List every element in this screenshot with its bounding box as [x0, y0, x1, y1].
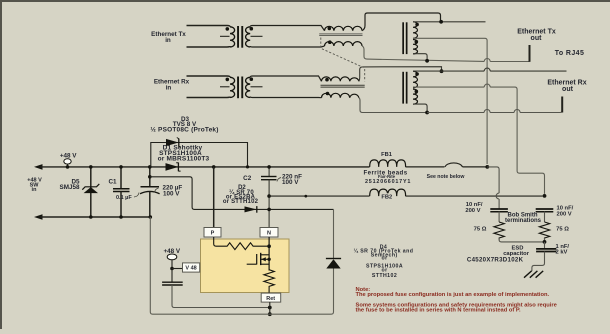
svg-text:or STTH102: or STTH102 — [223, 199, 259, 205]
pin box V48 — [172, 263, 200, 272]
fuse on FB1 line — [445, 163, 463, 167]
note text — [356, 287, 557, 314]
wire Rx in bottom — [187, 97, 231, 98]
junction Rx top tap — [440, 69, 444, 73]
label ferrite beads — [363, 170, 411, 186]
junction FB2 / right chain — [543, 194, 547, 198]
autotransformer T4 Rx core — [402, 72, 407, 104]
hop wire y112 over v517 — [514, 110, 520, 113]
choke L1 core — [319, 34, 362, 36]
svg-text:C4520X7R3D102K: C4520X7R3D102K — [467, 256, 524, 263]
svg-text:out: out — [562, 86, 574, 93]
svg-text:2512066017Y1: 2512066017Y1 — [365, 179, 411, 185]
wire Tx secondary top to choke — [250, 26, 324, 31]
ground ESD — [524, 271, 543, 278]
junction Rx bottom tap — [425, 111, 429, 115]
svg-text:in: in — [32, 187, 38, 193]
wire Ethernet Rx out line — [427, 97, 562, 113]
wire P feed vertical — [213, 167, 215, 228]
svg-text:Ethernet Rx: Ethernet Rx — [154, 79, 190, 86]
label Ethernet Tx in — [151, 31, 186, 44]
dashed coupling path — [321, 38, 365, 82]
junction Tx bottom tap — [425, 59, 429, 63]
wire Rx top tap — [413, 70, 567, 72]
wire Tx in top — [187, 26, 231, 27]
capacitor Bob Smith left 10nF — [465, 202, 508, 222]
resistor internal lower — [264, 270, 274, 293]
wire bottom rail — [41, 215, 153, 219]
svg-text:in: in — [165, 37, 171, 44]
transformer T1 Tx-in secondary winding — [246, 27, 263, 47]
svg-text:0.1 µF: 0.1 µF — [116, 195, 132, 201]
label Ethernet Rx out — [547, 80, 586, 93]
arrow bottom rail left — [34, 214, 43, 220]
svg-text:To RJ45: To RJ45 — [555, 50, 585, 57]
svg-text:P: P — [211, 231, 215, 237]
svg-text:100 V: 100 V — [282, 179, 299, 186]
wire Tx bottom tap — [413, 54, 427, 61]
junction FB2 small dot — [304, 195, 307, 198]
hop wire y70 over v487 — [484, 68, 490, 71]
junction FB1 / v487 — [485, 165, 489, 169]
label D4 — [354, 244, 414, 279]
hop wire y61 over v487 — [484, 59, 490, 62]
transformer T2 Rx-in secondary winding — [246, 77, 263, 97]
wire choke L1 w1 to top jog — [362, 13, 440, 31]
wire top rail / FB1 net — [41, 166, 486, 168]
svg-text:terminations: terminations — [505, 218, 542, 224]
svg-text:N: N — [267, 231, 271, 237]
svg-text:200 V: 200 V — [557, 211, 572, 217]
svg-text:100 V: 100 V — [163, 190, 180, 197]
resistor internal sense — [214, 237, 268, 250]
svg-text:C2: C2 — [243, 175, 252, 182]
svg-text:or MBRS1100T3: or MBRS1100T3 — [158, 155, 210, 162]
ferrite bead FB2 — [370, 189, 406, 200]
diode D2 — [150, 177, 334, 213]
svg-text:The proposed fuse configuratio: The proposed fuse configuration is just … — [356, 292, 550, 298]
autotransformer T4 Rx winding — [413, 71, 419, 104]
wire Rx middle tap to vertical — [413, 84, 545, 194]
wire Tx top tap — [413, 21, 486, 23]
svg-text:in: in — [166, 84, 172, 91]
choke L2 core — [321, 85, 365, 87]
resistor 75 ohm right — [539, 222, 569, 240]
wire to RJ45 stub — [529, 45, 531, 62]
transformer T2 Rx-in primary winding — [220, 77, 235, 97]
junction C2 FB2 — [267, 194, 271, 198]
wire choke L1 w2 down-right — [362, 46, 529, 62]
wire Rx in top — [187, 76, 231, 77]
transformer T1 core — [237, 26, 243, 48]
choke L1 Tx winding 1 — [325, 26, 363, 30]
svg-text:200 V: 200 V — [465, 208, 480, 214]
svg-text:C1: C1 — [108, 179, 117, 186]
junction Ret lower — [268, 312, 272, 316]
autotransformer T3 Tx winding — [413, 22, 419, 54]
junction D1 out — [212, 165, 216, 169]
svg-text:75 Ω: 75 Ω — [474, 226, 487, 232]
chip block PoE controller — [201, 239, 290, 293]
pin box Ret — [261, 293, 281, 302]
wire Tx in bottom — [187, 46, 231, 47]
wire FB1 to left BobSmith cap — [487, 167, 499, 209]
diode D3 TVS bypass loop — [150, 116, 249, 169]
wire Tx secondary bottom to choke — [250, 46, 324, 47]
wire Ret vertical — [269, 302, 271, 314]
capacitor C1 0.1uF — [108, 165, 139, 217]
svg-text:the fuse to be installed in se: the fuse to be installed in series with … — [356, 307, 521, 313]
label Bob Smith terminations — [505, 212, 542, 224]
capacitor Bob Smith right 10nF — [536, 206, 574, 223]
svg-text:FB2: FB2 — [381, 194, 392, 200]
transistor Q1 MOSFET — [247, 237, 271, 271]
hop wire y112 over v487 — [484, 110, 490, 113]
wire choke L2 w2 down-right — [359, 98, 427, 113]
svg-text:75 Ω: 75 Ω — [556, 226, 569, 232]
svg-text:STTH102: STTH102 — [372, 273, 397, 279]
junction resistor to N — [267, 244, 271, 248]
svg-text:V 48: V 48 — [185, 266, 196, 272]
choke L2 Rx winding 2 — [322, 92, 359, 98]
terminal +48V top — [60, 153, 77, 169]
junction Ret upper — [268, 306, 272, 310]
wire Rx secondary top to choke — [250, 76, 321, 81]
label Ethernet Tx out — [517, 29, 556, 42]
svg-text:SMJ58: SMJ58 — [60, 184, 80, 191]
transformer T1 Tx-in primary winding — [220, 27, 235, 47]
svg-text:or: or — [381, 256, 387, 262]
diode D5 zener SMJ58 — [60, 165, 100, 217]
label see note below — [427, 174, 466, 180]
label +48 V SW in — [27, 178, 42, 194]
choke L1 Tx winding 2 — [325, 40, 363, 46]
label Ethernet Rx in — [154, 79, 190, 92]
capacitor C2 220nF — [243, 165, 302, 227]
diode D4 — [326, 209, 341, 268]
wire resistors join — [499, 238, 546, 244]
diode D1 Schottky — [158, 145, 210, 172]
capacitor V48 filter — [162, 269, 270, 308]
junction top tap / jog — [439, 20, 443, 24]
choke L2 Rx winding 1 — [322, 77, 359, 82]
svg-text:out: out — [531, 35, 543, 42]
wire Tx middle tap to vertical — [413, 38, 487, 164]
resistor 75 ohm left — [474, 222, 505, 240]
capacitor 220uF 100V bulk — [140, 165, 182, 217]
wire Rx bottom tap — [413, 104, 427, 111]
label To RJ45 — [555, 50, 585, 57]
svg-text:See note below: See note below — [427, 174, 466, 180]
wire choke L2 w1 up-right — [359, 67, 442, 82]
capacitor ESD 1nF 2kV — [467, 242, 570, 271]
svg-text:Ret: Ret — [266, 296, 275, 302]
terminal +48V bottom — [163, 248, 180, 270]
wire FB2 net — [269, 195, 542, 197]
pin box P — [204, 228, 222, 238]
wire Rx secondary bottom to choke — [250, 97, 321, 98]
autotransformer T3 Tx core — [402, 22, 407, 54]
transformer T2 core — [237, 77, 243, 99]
ferrite bead FB1 — [370, 152, 406, 167]
svg-text:FB1: FB1 — [381, 152, 392, 158]
arrow top rail left — [34, 164, 43, 170]
pin box N — [260, 228, 279, 238]
svg-text:2 kV: 2 kV — [556, 250, 568, 256]
svg-text:½ PSOT08C (ProTek): ½ PSOT08C (ProTek) — [150, 126, 218, 134]
wire return bottom net — [150, 217, 333, 314]
